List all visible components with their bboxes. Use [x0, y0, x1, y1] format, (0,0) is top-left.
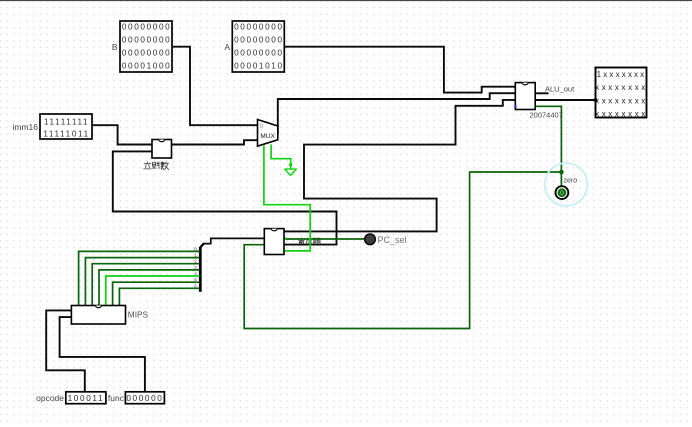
- wire B to MUX: [172, 47, 257, 126]
- wire MIPS ctrl 0: [79, 251, 200, 305]
- svg-text:opcode: opcode: [36, 393, 64, 403]
- MIPS control unit: [71, 306, 148, 325]
- ALU 20074407: [514, 83, 575, 120]
- svg-text:00000000: 00000000: [234, 36, 284, 45]
- svg-text:PC_sel: PC_sel: [378, 235, 407, 245]
- wire MIPS ctrl 5: [113, 282, 200, 305]
- ALU output display: [594, 68, 648, 119]
- wire extender loop to register: [113, 151, 337, 244]
- wire PC_sel to register (dark green): [284, 238, 364, 240]
- splitter bit labels 0-6: [194, 246, 197, 288]
- wire MIPS to opcode: [46, 310, 85, 391]
- pin dot register q: [284, 237, 287, 240]
- svg-text:11111111: 11111111: [44, 117, 89, 126]
- svg-text:1xxxxxxx: 1xxxxxxx: [597, 70, 647, 79]
- svg-text:B: B: [112, 42, 118, 52]
- label 寄存器 (register): [298, 238, 320, 245]
- splitter control bus: [194, 243, 204, 292]
- unconnected input pin (blue): [514, 105, 516, 107]
- wire register to ALU pin3: [284, 100, 515, 232]
- wire MUX output to ALU pin2: [278, 93, 516, 134]
- PC_sel button: [365, 234, 407, 245]
- svg-text:zero: zero: [564, 178, 578, 185]
- display input pin: [594, 99, 597, 102]
- svg-text:11111011: 11111011: [43, 130, 90, 139]
- svg-text:0: 0: [260, 123, 264, 130]
- svg-text:imm16: imm16: [12, 122, 38, 132]
- svg-text:20074407: 20074407: [530, 111, 563, 120]
- svg-text:MUX: MUX: [260, 133, 275, 140]
- svg-text:000000: 000000: [126, 394, 163, 403]
- imm16 display: [12, 114, 92, 139]
- svg-text:00001000: 00001000: [122, 62, 172, 71]
- output pin zero (value 0): [556, 186, 569, 199]
- svg-text:A: A: [224, 42, 230, 52]
- label 立即数 (sign extender): [144, 162, 151, 169]
- svg-text:xxxxxxxx: xxxxxxxx: [595, 109, 648, 118]
- wire imm16 to extender: [92, 125, 152, 144]
- value rows B = 00000000 00000000 00000000 00001000: [122, 22, 172, 70]
- wire ALU to display: [535, 99, 595, 101]
- toolbar edge line: [0, 0, 692, 1]
- svg-text:100011: 100011: [68, 394, 105, 403]
- opcode display: [36, 392, 106, 404]
- svg-text:0: 0: [560, 190, 564, 197]
- svg-text:00001010: 00001010: [234, 62, 284, 71]
- wire MIPS ctrl 4 (high): [106, 276, 200, 306]
- svg-text:00000000: 00000000: [122, 49, 172, 58]
- register display A: [224, 21, 284, 72]
- wire MIPS ctrl 6: [119, 288, 199, 305]
- wire splitter to register: [204, 238, 264, 243]
- wire A to ALU pin1: [284, 47, 515, 93]
- wire MIPS to func: [60, 317, 145, 392]
- register 寄存器: [264, 229, 284, 255]
- junction zero net: [559, 170, 564, 175]
- ground: [285, 163, 297, 175]
- value rows 1xxxxxxx xxxxxxxx xxxxxxxx xxxxxxxx: [595, 70, 648, 118]
- extender 立即数: [144, 140, 172, 170]
- svg-text:xxxxxxxx: xxxxxxxx: [595, 96, 648, 105]
- value rows imm16 = 11111111 11111011: [43, 117, 90, 138]
- svg-text:xxxxxxxx: xxxxxxxx: [595, 83, 648, 92]
- svg-text:00000000: 00000000: [234, 49, 284, 58]
- wire MIPS ctrl 1: [85, 258, 199, 306]
- value rows A = 00000000 00000000 00000000 00001010: [234, 22, 284, 70]
- svg-text:00000000: 00000000: [122, 22, 172, 31]
- svg-text:MIPS: MIPS: [128, 310, 149, 320]
- wire extender to MUX: [172, 140, 258, 144]
- wire zero net (dark green): [244, 106, 561, 328]
- func display: [108, 392, 164, 404]
- MUX U1: [258, 120, 278, 147]
- register display B: [112, 21, 172, 72]
- svg-text:00000000: 00000000: [122, 36, 172, 45]
- svg-text:func: func: [108, 393, 125, 403]
- wire MIPS ctrl 3: [99, 270, 199, 306]
- svg-text:ALU_out: ALU_out: [545, 84, 575, 93]
- zero LED: [545, 163, 588, 206]
- wire ALU_out stub: [535, 92, 548, 94]
- svg-text:00000000: 00000000: [234, 22, 284, 31]
- wire MUX select to register (bright green): [264, 145, 310, 251]
- selection halo: [545, 163, 588, 206]
- wire MIPS ctrl 2: [92, 264, 199, 306]
- wire MUX enable to ground (bright green): [271, 144, 291, 169]
